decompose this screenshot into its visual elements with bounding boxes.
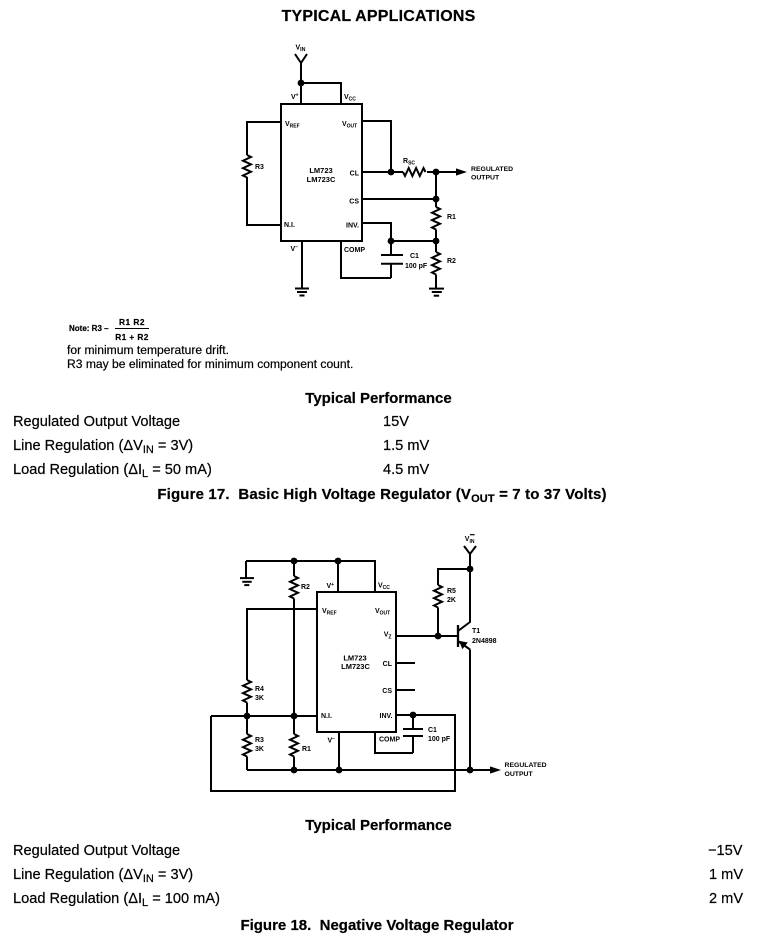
svg-text:LM723C: LM723C: [307, 175, 336, 184]
svg-text:3K: 3K: [255, 746, 264, 753]
svg-text:T1: T1: [472, 628, 480, 635]
svg-text:VOUT: VOUT: [342, 121, 357, 130]
svg-text:VCC: VCC: [378, 583, 390, 592]
svg-text:R5: R5: [447, 588, 456, 595]
svg-text:INV.: INV.: [380, 713, 393, 720]
svg-text:V−: V−: [291, 245, 299, 254]
svg-text:R3: R3: [255, 737, 264, 744]
svg-text:R1: R1: [447, 214, 456, 221]
svg-text:100 pF: 100 pF: [405, 263, 428, 270]
svg-text:COMP: COMP: [344, 247, 365, 254]
svg-text:VCC: VCC: [344, 94, 356, 103]
svg-text:3K: 3K: [255, 695, 264, 702]
svg-text:C1: C1: [428, 727, 437, 734]
svg-text:LM723C: LM723C: [341, 662, 370, 671]
svg-text:C1: C1: [410, 253, 419, 260]
svg-text:OUTPUT: OUTPUT: [505, 771, 534, 778]
svg-text:VREF: VREF: [285, 121, 300, 130]
svg-text:R4: R4: [255, 686, 264, 693]
svg-text:N.I.: N.I.: [284, 222, 295, 229]
svg-text:CS: CS: [349, 198, 359, 205]
svg-text:VZ: VZ: [384, 632, 392, 641]
svg-text:R2: R2: [301, 584, 310, 591]
svg-text:V−: V−: [328, 736, 336, 745]
svg-text:LM723: LM723: [309, 166, 332, 175]
svg-text:V+: V+: [327, 582, 335, 590]
svg-text:VIN: VIN: [465, 536, 475, 545]
svg-text:R3: R3: [255, 164, 264, 171]
svg-text:RSC: RSC: [403, 158, 415, 167]
svg-text:CL: CL: [350, 171, 360, 178]
svg-text:VREF: VREF: [322, 608, 337, 617]
svg-text:VIN: VIN: [296, 44, 306, 53]
svg-text:2K: 2K: [447, 597, 456, 604]
svg-text:R1: R1: [302, 746, 311, 753]
svg-text:OUTPUT: OUTPUT: [471, 174, 500, 181]
svg-text:REGULATED: REGULATED: [505, 762, 547, 769]
svg-text:CL: CL: [383, 661, 393, 668]
svg-text:COMP: COMP: [379, 737, 400, 744]
svg-text:INV.: INV.: [346, 223, 359, 230]
svg-text:REGULATED: REGULATED: [471, 166, 513, 173]
svg-text:2N4898: 2N4898: [472, 638, 497, 645]
svg-text:100 pF: 100 pF: [428, 736, 451, 743]
svg-text:R2: R2: [447, 258, 456, 265]
svg-text:N.I.: N.I.: [321, 713, 332, 720]
svg-text:VOUT: VOUT: [375, 608, 390, 617]
svg-text:V+: V+: [291, 93, 299, 102]
svg-text:CS: CS: [382, 688, 392, 695]
